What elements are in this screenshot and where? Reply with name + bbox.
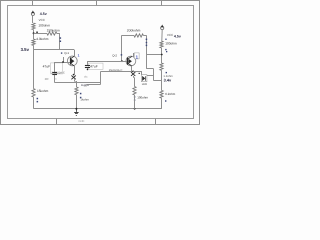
svg-text:3.4v: 3.4v xyxy=(164,78,172,83)
svg-text:15kohm: 15kohm xyxy=(37,89,49,93)
svg-text:100ohm: 100ohm xyxy=(137,96,148,100)
svg-text:4.5v: 4.5v xyxy=(40,12,47,16)
svg-text:6.2ohm: 6.2ohm xyxy=(165,92,176,96)
svg-text:Q-1: Q-1 xyxy=(64,51,69,55)
svg-text:3.5v: 3.5v xyxy=(21,47,30,52)
svg-text:47uF: 47uF xyxy=(43,64,51,68)
svg-text:100ohm: 100ohm xyxy=(165,42,177,46)
svg-text:GND: GND xyxy=(78,120,84,123)
svg-text:4.3kohm: 4.3kohm xyxy=(36,37,49,41)
svg-text:VCC: VCC xyxy=(39,18,46,22)
svg-text:2N2222A-C: 2N2222A-C xyxy=(109,69,123,72)
svg-text:100ohm: 100ohm xyxy=(38,24,50,28)
svg-text:47uF: 47uF xyxy=(90,65,98,69)
svg-text:LED: LED xyxy=(142,83,147,86)
svg-text:200kohm: 200kohm xyxy=(127,28,141,32)
svg-text:d c: d c xyxy=(84,75,88,78)
svg-text:4.5v: 4.5v xyxy=(174,34,181,38)
svg-text:1: 1 xyxy=(78,54,80,58)
svg-text:150kohm: 150kohm xyxy=(47,28,60,32)
svg-text:1kohm: 1kohm xyxy=(80,97,89,101)
svg-text:Q-2: Q-2 xyxy=(112,53,117,57)
svg-text:CC: CC xyxy=(45,78,49,81)
svg-text:c: c xyxy=(55,77,57,80)
